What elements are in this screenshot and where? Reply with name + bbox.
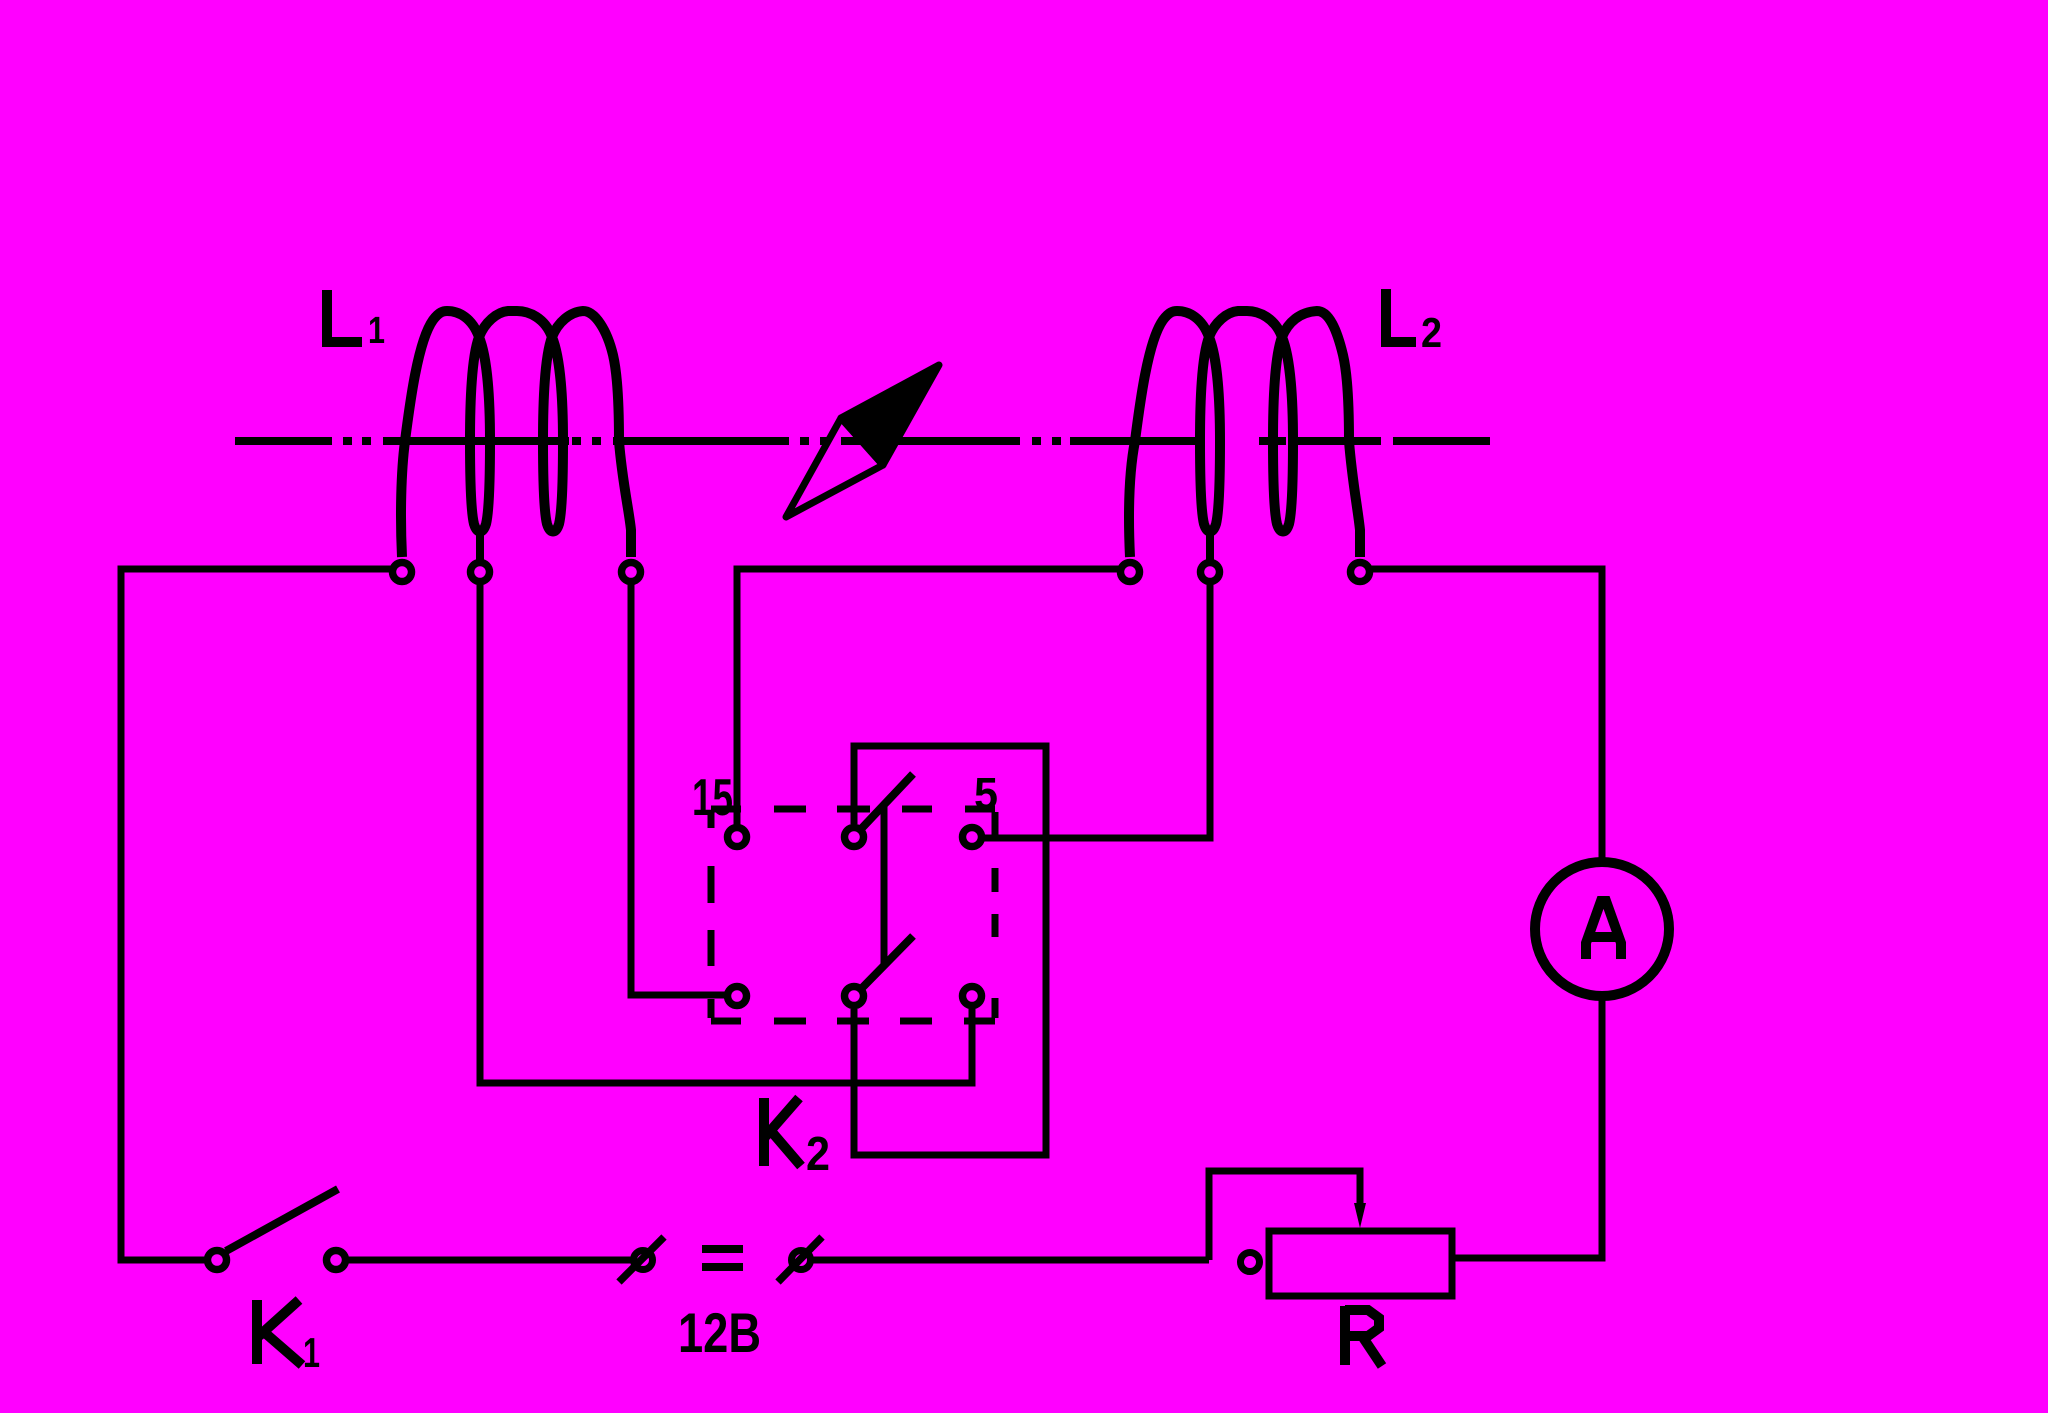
terminal of L1 (middle tap): [471, 563, 490, 582]
svg-text:2: 2: [1421, 309, 1442, 356]
wire: L1 middle tap down and right to K2 bottom-right terminal: [480, 582, 972, 1083]
inductor L1 (3-turn coil): [401, 311, 631, 557]
svg-text:12В: 12В: [678, 1301, 761, 1364]
wire: K2 pole link loop (top-middle to bottom-middle around right): [854, 746, 1046, 1155]
svg-text:2: 2: [806, 1128, 830, 1181]
terminal of L2 (left): [1121, 563, 1140, 582]
terminal of L2 (right): [1351, 563, 1370, 582]
label L2: [1386, 289, 1416, 342]
wire: L1 left terminal to K1 (left loop): [121, 569, 391, 1260]
wire: rheostat to ammeter: [1452, 997, 1602, 1258]
ammeter A: [1535, 862, 1669, 996]
axis centerline (dash-dot-dot): [235, 437, 1490, 445]
rheostat R open terminal: [1241, 1253, 1260, 1272]
label K1: [257, 1300, 302, 1365]
switch K1 arm: [226, 1189, 338, 1251]
rheostat R body: [1269, 1231, 1452, 1296]
K2 terminal (bottom-middle): [845, 987, 864, 1006]
svg-text:1: 1: [368, 310, 385, 352]
K2 terminal 5 (top-right): [963, 828, 982, 847]
svg-text:15: 15: [692, 769, 733, 827]
battery symbol =: [702, 1245, 743, 1253]
svg-text:1: 1: [303, 1329, 320, 1376]
terminal of L2 (middle tap): [1201, 563, 1220, 582]
label R: [1345, 1306, 1382, 1366]
K2 switch arm (top pole): [862, 774, 913, 828]
wire: L2 left terminal left and down to K2 top-left terminal: [737, 569, 1119, 825]
battery right terminal (circle with slash): [792, 1251, 811, 1270]
label L1: [327, 290, 362, 342]
K2 terminal (bottom-right): [963, 987, 982, 1006]
inductor L2 (3-turn coil): [1129, 311, 1360, 557]
switch K1 right contact: [327, 1251, 346, 1270]
terminal of L1 (left): [393, 563, 412, 582]
K2 terminal 15 (top-left): [728, 828, 747, 847]
K2 terminal (bottom-left): [728, 987, 747, 1006]
switch K1 left contact: [208, 1251, 227, 1270]
wire: K1 to battery: [347, 1257, 631, 1264]
battery left terminal (circle with slash): [634, 1251, 653, 1270]
wire: battery to rheostat slider branch: [813, 1257, 1209, 1264]
wire: L1 right terminal down to K2 bottom-left terminal: [631, 582, 726, 995]
switch K2 dashed enclosure: [711, 809, 995, 1021]
wire: rheostat slider branch: [1209, 1171, 1360, 1260]
K2 terminal (top-middle): [845, 828, 864, 847]
K2 gang link: [881, 804, 888, 966]
compass needle (hollow south half): [786, 418, 883, 517]
wire L1 tap stub: [476, 532, 484, 560]
rheostat slider arrow: [1354, 1203, 1366, 1228]
K2 switch arm (bottom pole): [862, 936, 913, 988]
label K2: [764, 1098, 801, 1166]
terminal of L1 (right): [622, 563, 641, 582]
compass needle (filled north half): [841, 365, 939, 465]
wire: L2 right terminal to ammeter: [1371, 569, 1602, 861]
svg-text:5: 5: [974, 768, 998, 819]
wire L2 tap stub: [1206, 532, 1214, 560]
wire: L2 middle tap down and left to K2 top-right terminal: [984, 582, 1210, 838]
